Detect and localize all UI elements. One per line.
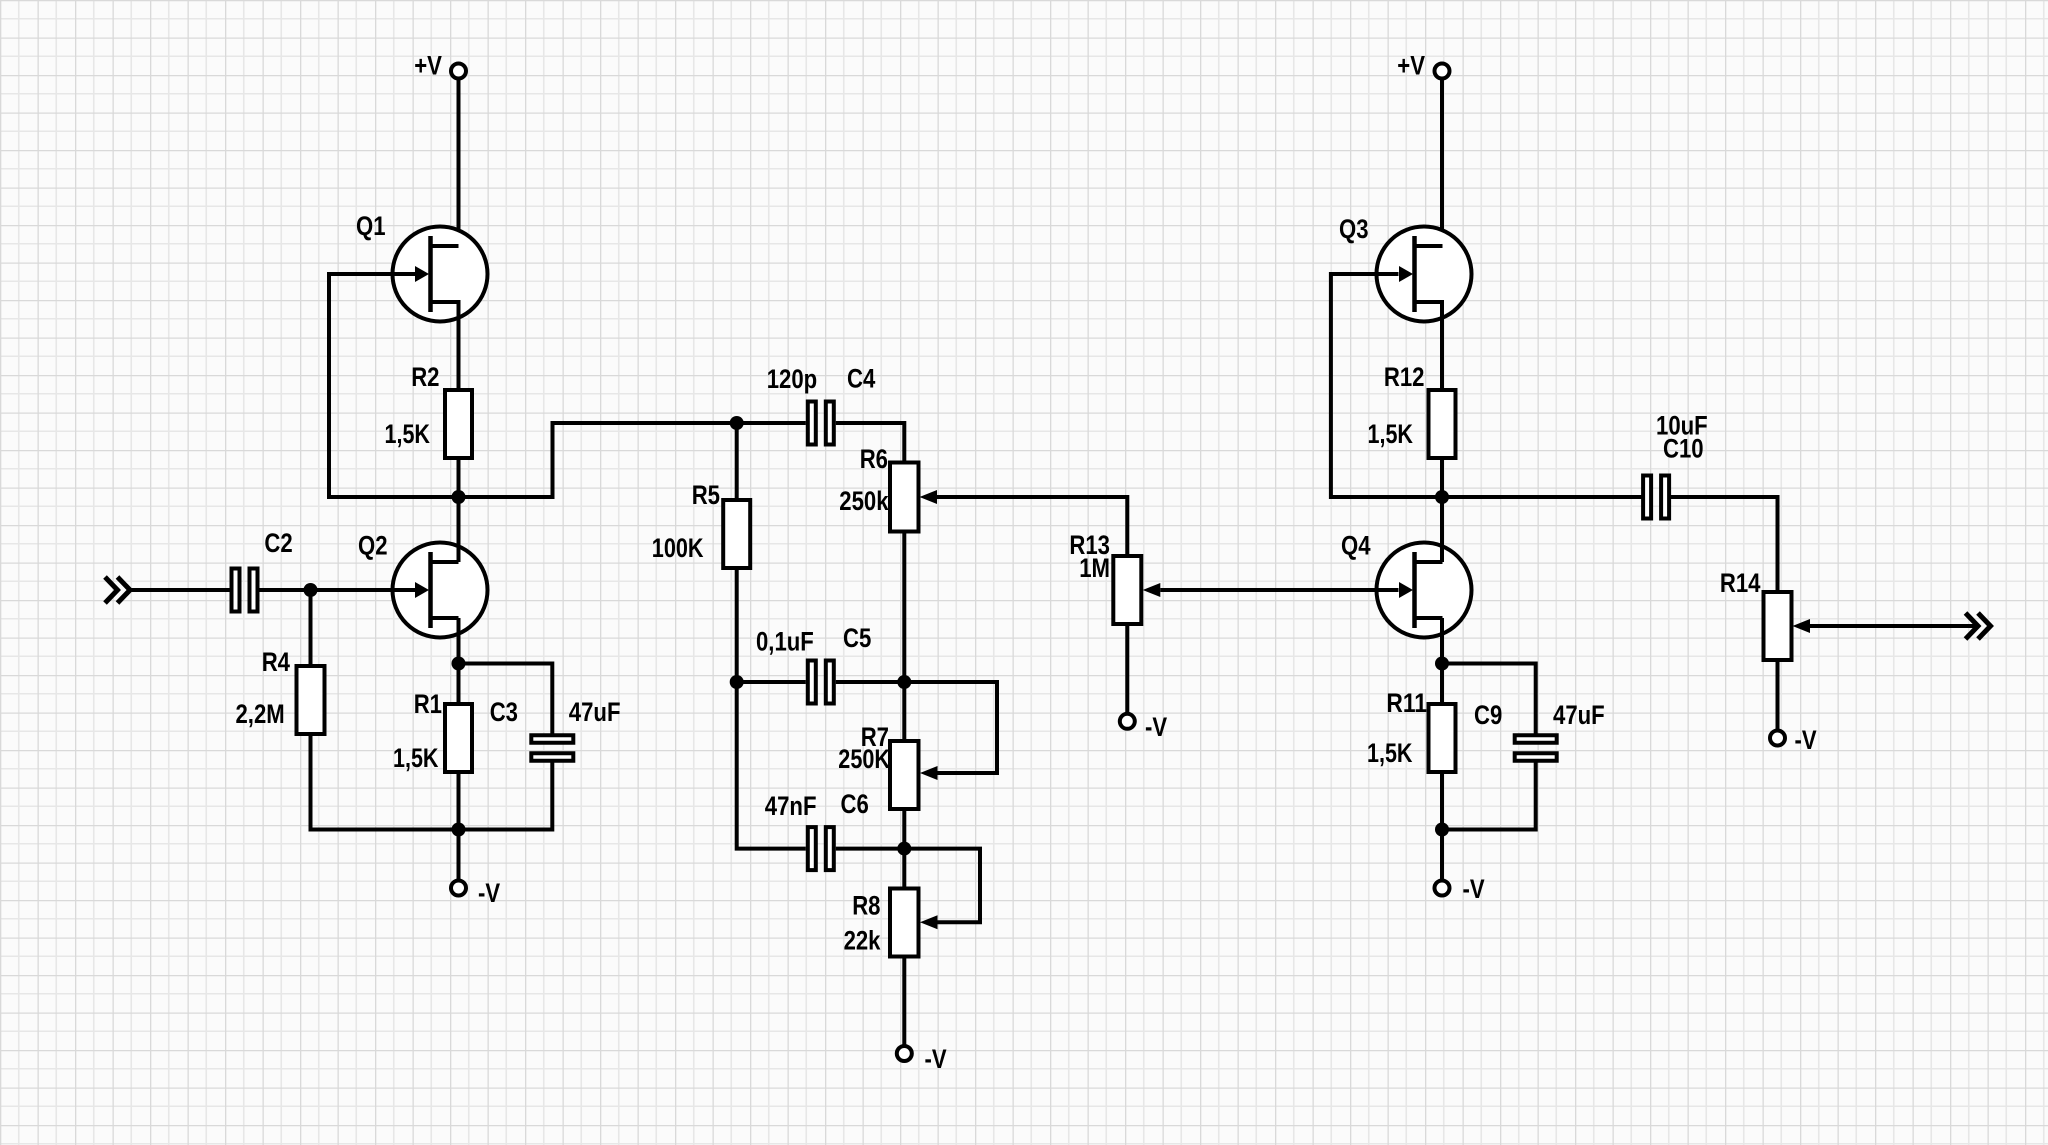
wire node F to C5: [737, 680, 806, 684]
wire Q2 drain to node A: [457, 497, 461, 562]
svg-text:0,1uF: 0,1uF: [756, 627, 814, 657]
svg-text:Q2: Q2: [358, 531, 388, 561]
resistor R13 (pot): [1113, 556, 1141, 624]
wire node H to R8: [902, 849, 906, 889]
wire R2 to node A: [457, 458, 461, 497]
power terminal -V (stage 2): [1435, 881, 1450, 896]
svg-text:Q1: Q1: [356, 211, 386, 241]
transistor Q2: [393, 543, 488, 638]
wire node I to C10: [1442, 495, 1642, 499]
wire node J to C9: [1442, 664, 1536, 734]
wire input to C2: [130, 588, 231, 592]
resistor R8 (pot): [890, 889, 919, 957]
output port: [1966, 613, 1991, 639]
wire node D to R1: [457, 664, 461, 705]
wire R12 to node I: [1440, 458, 1444, 497]
wire node C to R4: [309, 590, 313, 666]
resistor R2: [445, 390, 472, 458]
wire node A to C4 row: [459, 423, 806, 497]
svg-text:R1: R1: [414, 689, 442, 719]
wire node D to C3: [459, 664, 553, 734]
wiper arrow R14: [1793, 619, 1811, 633]
svg-text:47uF: 47uF: [1553, 700, 1605, 730]
wire node K to -V: [1440, 830, 1444, 881]
wire +V to Q1 drain: [431, 79, 459, 247]
wire Q4 source to node J: [1440, 618, 1444, 664]
wire Q1 source to R2: [431, 302, 459, 390]
svg-text:C4: C4: [847, 364, 875, 394]
wire Q1 gate feedback: [329, 274, 459, 497]
wire Q2 source to node D: [457, 618, 461, 664]
power terminal +V (stage 1): [451, 64, 466, 79]
capacitor C3: [531, 735, 573, 761]
wire Q3 gate feedback: [1331, 274, 1442, 497]
capacitor C10: [1643, 476, 1669, 519]
wire R7 to node H: [902, 809, 906, 849]
wire R4 to bottom rail: [311, 734, 459, 830]
wire node H to R8 wiper: [904, 849, 980, 923]
power terminal -V (stage 1): [451, 881, 466, 896]
power terminal -V (R14): [1770, 731, 1785, 746]
resistor R6 (pot): [890, 463, 919, 532]
svg-text:C5: C5: [843, 623, 871, 653]
wire R6 wiper to R13: [937, 497, 1127, 556]
wire C9 to bottom rail: [1442, 763, 1536, 830]
node H junction: [897, 842, 911, 856]
svg-text:-V: -V: [1463, 874, 1485, 904]
power terminal -V (R8): [897, 1046, 912, 1061]
wire R1 to bottom rail: [457, 772, 461, 830]
svg-text:R4: R4: [262, 647, 290, 677]
wire node J to R11: [1440, 664, 1444, 705]
capacitor C6: [808, 827, 834, 870]
svg-text:C2: C2: [264, 528, 292, 558]
node E junction (bottom rail): [452, 823, 466, 837]
svg-text:C6: C6: [841, 789, 869, 819]
wire R14 wiper to output: [1810, 624, 1978, 628]
svg-text:R14: R14: [1720, 568, 1761, 598]
svg-text:-V: -V: [478, 878, 500, 908]
wire C2 to Q2 gate: [259, 588, 416, 592]
node C junction (R4 tap): [304, 583, 318, 597]
wire C5 to node G: [836, 680, 905, 684]
resistor R11: [1429, 704, 1456, 772]
svg-text:1,5K: 1,5K: [1368, 419, 1414, 449]
svg-text:-V: -V: [925, 1044, 947, 1074]
resistor R4: [297, 666, 325, 734]
svg-text:R12: R12: [1384, 362, 1425, 392]
svg-text:R2: R2: [411, 362, 439, 392]
svg-text:R8: R8: [852, 891, 880, 921]
svg-text:-V: -V: [1145, 712, 1167, 742]
node D junction (source node): [452, 657, 466, 671]
svg-text:R6: R6: [860, 444, 888, 474]
wire R13 wiper to Q4 gate: [1160, 588, 1398, 592]
svg-text:R11: R11: [1386, 688, 1427, 718]
node K junction (bottom rail): [1435, 823, 1449, 837]
wire node G to R7 wiper: [904, 682, 997, 773]
node B junction (R5 tap): [730, 416, 744, 430]
svg-text:120p: 120p: [767, 364, 818, 394]
wiper arrow R13: [1143, 583, 1161, 597]
node F junction: [730, 675, 744, 689]
svg-text:250k: 250k: [839, 486, 889, 516]
capacitor C2: [232, 569, 258, 612]
svg-text:C3: C3: [490, 697, 518, 727]
capacitor C4: [808, 402, 834, 445]
resistor R5: [723, 500, 750, 568]
wiper arrow R8: [920, 915, 938, 929]
wiper arrow R7: [920, 766, 938, 780]
svg-text:C9: C9: [1474, 700, 1502, 730]
wire C4 to R6: [836, 423, 905, 463]
transistor Q1: [393, 227, 488, 322]
svg-text:1M: 1M: [1079, 553, 1110, 583]
input port: [105, 577, 130, 603]
node A junction: [452, 490, 466, 504]
wire node B to R5: [735, 423, 739, 500]
svg-text:22k: 22k: [844, 926, 882, 956]
power terminal +V (stage 2): [1435, 64, 1450, 79]
transistor Q3: [1377, 227, 1472, 322]
svg-text:C10: C10: [1663, 434, 1704, 464]
svg-text:R5: R5: [692, 480, 720, 510]
wire node F to C6: [737, 682, 806, 849]
svg-text:+V: +V: [414, 51, 442, 81]
node G junction: [897, 675, 911, 689]
svg-text:Q3: Q3: [1339, 214, 1369, 244]
wiper arrow R6: [920, 490, 938, 504]
wire C6 to node H: [836, 847, 905, 851]
wire R14 to -V: [1776, 660, 1780, 731]
svg-text:+V: +V: [1397, 51, 1425, 81]
svg-text:47nF: 47nF: [765, 791, 817, 821]
svg-text:-V: -V: [1795, 725, 1817, 755]
svg-text:250K: 250K: [838, 744, 890, 774]
wire R6 to node G: [902, 532, 906, 683]
svg-text:1,5K: 1,5K: [385, 419, 431, 449]
resistor R14 (pot): [1764, 592, 1792, 660]
resistor R12: [1429, 390, 1456, 458]
wire Q3 source to R12: [1415, 302, 1443, 390]
svg-text:1,5K: 1,5K: [393, 743, 439, 773]
svg-text:100K: 100K: [652, 533, 704, 563]
svg-text:1,5K: 1,5K: [1367, 738, 1413, 768]
node I junction: [1435, 490, 1449, 504]
wire R5 to node F: [735, 568, 739, 682]
svg-text:47uF: 47uF: [569, 697, 621, 727]
wire node G to R7: [902, 682, 906, 741]
wire C10 to R14: [1670, 497, 1777, 592]
wire Q4 drain to node I: [1440, 497, 1444, 562]
resistor R1: [445, 704, 472, 772]
wire node E to -V: [457, 830, 461, 881]
wire R8 to -V: [902, 957, 906, 1047]
capacitor C5: [808, 661, 834, 704]
power terminal -V (R13): [1120, 714, 1135, 729]
wire C3 to bottom rail: [459, 763, 553, 830]
resistor R7 (pot): [890, 741, 919, 809]
node J junction: [1435, 657, 1449, 671]
wire R13 to -V: [1125, 624, 1129, 714]
transistor Q4: [1377, 543, 1472, 638]
capacitor C9: [1515, 735, 1557, 761]
wire R11 to bottom rail: [1440, 772, 1444, 830]
svg-text:Q4: Q4: [1341, 531, 1371, 561]
svg-text:2,2M: 2,2M: [236, 699, 285, 729]
wire +V to Q3 drain: [1415, 79, 1443, 247]
